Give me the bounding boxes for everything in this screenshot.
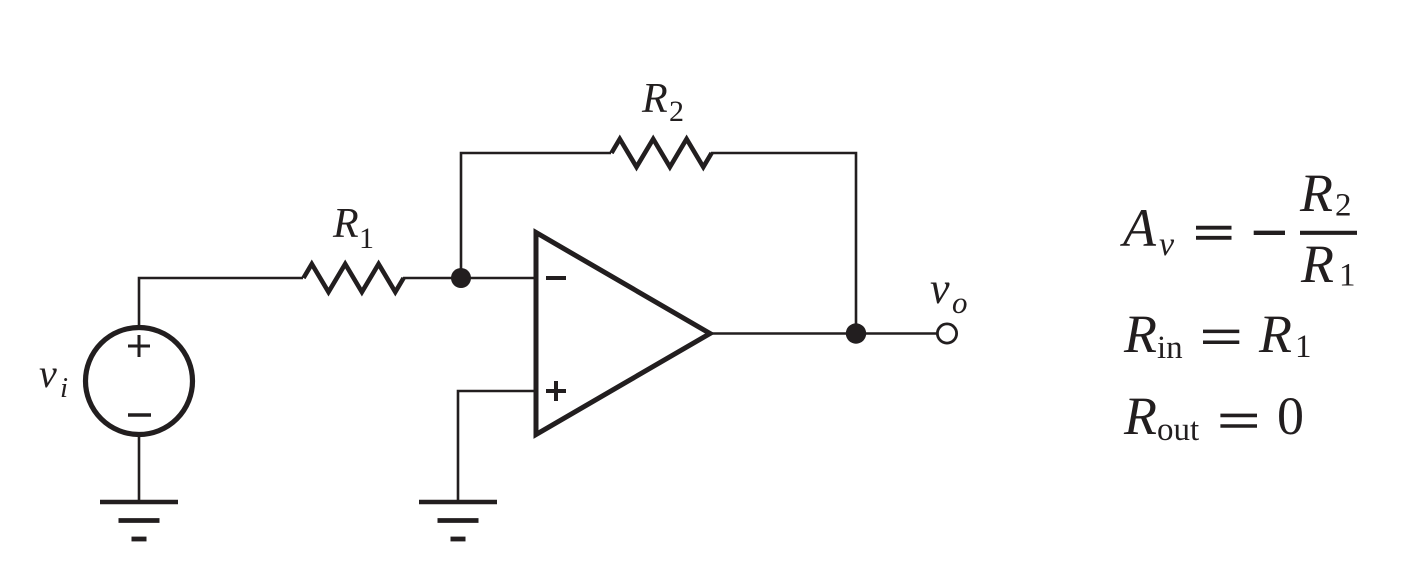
svg-text:0: 0 — [1277, 386, 1304, 446]
svg-text:2: 2 — [1335, 188, 1352, 224]
svg-text:v: v — [39, 351, 57, 396]
svg-text:1: 1 — [1295, 329, 1312, 365]
svg-text:1: 1 — [1339, 258, 1356, 294]
svg-text:v: v — [930, 264, 950, 313]
svg-text:2: 2 — [669, 95, 684, 128]
svg-text:i: i — [60, 372, 68, 404]
svg-text:out: out — [1157, 412, 1199, 448]
svg-text:in: in — [1157, 330, 1183, 366]
svg-text:R: R — [332, 201, 359, 247]
svg-text:R: R — [1123, 304, 1157, 364]
svg-text:v: v — [1159, 226, 1175, 263]
svg-text:A: A — [1120, 198, 1157, 258]
svg-text:R: R — [1300, 234, 1334, 294]
svg-text:R: R — [1299, 163, 1333, 223]
svg-text:o: o — [952, 285, 968, 320]
svg-text:1: 1 — [359, 222, 374, 255]
svg-text:R: R — [1123, 386, 1157, 446]
svg-text:R: R — [1258, 304, 1292, 364]
svg-text:R: R — [641, 76, 668, 122]
